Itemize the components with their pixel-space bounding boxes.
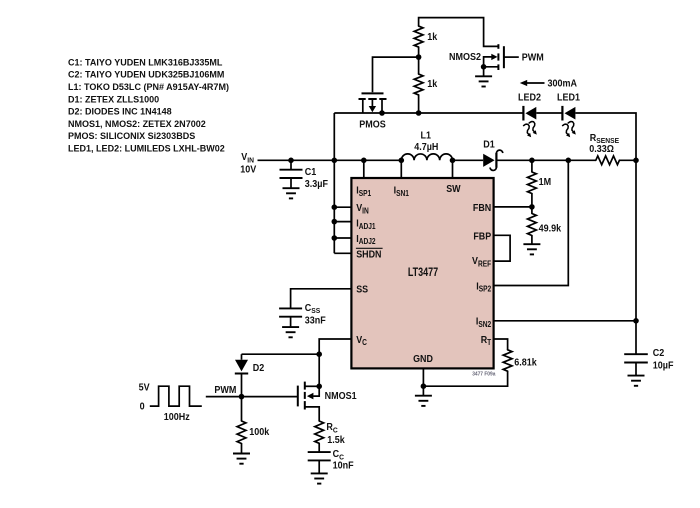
svg-text:LED1: LED1 (557, 92, 581, 104)
svg-text:49.9k: 49.9k (539, 223, 562, 235)
svg-text:0.33Ω: 0.33Ω (589, 144, 614, 156)
svg-text:D2: D2 (253, 362, 265, 374)
svg-text:SHDN: SHDN (356, 249, 381, 261)
svg-text:1.5k: 1.5k (327, 435, 345, 447)
svg-text:LED2: LED2 (518, 92, 541, 104)
svg-text:100Hz: 100Hz (164, 411, 190, 423)
svg-text:D1: ZETEX ZLLS1000: D1: ZETEX ZLLS1000 (68, 94, 159, 104)
svg-text:LT3477: LT3477 (408, 266, 438, 280)
svg-text:4.7µH: 4.7µH (414, 141, 438, 153)
svg-text:PWM: PWM (214, 384, 236, 396)
svg-text:C1: TAIYO YUDEN LMK316BJ335ML: C1: TAIYO YUDEN LMK316BJ335ML (68, 57, 223, 67)
svg-text:GND: GND (413, 353, 433, 365)
svg-text:10V: 10V (240, 164, 257, 176)
svg-text:300mA: 300mA (548, 78, 578, 90)
svg-text:3.3µF: 3.3µF (305, 178, 328, 190)
svg-text:33nF: 33nF (305, 315, 326, 327)
svg-text:100k: 100k (249, 427, 270, 439)
svg-text:1k: 1k (427, 79, 438, 91)
svg-text:C2: C2 (653, 348, 665, 360)
svg-text:3477 F09a: 3477 F09a (472, 371, 495, 377)
svg-text:C1: C1 (305, 167, 317, 179)
svg-text:5V: 5V (139, 382, 151, 394)
svg-text:D2: DIODES INC 1N4148: D2: DIODES INC 1N4148 (68, 106, 172, 116)
svg-text:PMOS: SILICONIX Si2303BDS: PMOS: SILICONIX Si2303BDS (68, 131, 195, 141)
svg-text:10nF: 10nF (333, 460, 354, 472)
svg-text:SW: SW (446, 183, 461, 195)
svg-text:0: 0 (140, 401, 145, 413)
svg-text:SS: SS (356, 284, 368, 296)
svg-text:C2: TAIYO YUDEN UDK325BJ106MM: C2: TAIYO YUDEN UDK325BJ106MM (68, 70, 225, 80)
svg-text:10µF: 10µF (653, 360, 674, 372)
svg-text:PMOS: PMOS (359, 119, 385, 131)
svg-text:1M: 1M (539, 177, 552, 189)
svg-text:NMOS1, NMOS2: ZETEX 2N7002: NMOS1, NMOS2: ZETEX 2N7002 (68, 119, 206, 129)
svg-text:1k: 1k (427, 32, 438, 44)
svg-text:PWM: PWM (522, 52, 544, 64)
svg-text:NMOS2: NMOS2 (449, 52, 481, 64)
svg-text:FBP: FBP (473, 231, 491, 243)
svg-text:L1: TOKO D53LC (PN# A915AY-4R7: L1: TOKO D53LC (PN# A915AY-4R7M) (68, 82, 229, 92)
svg-text:L1: L1 (421, 130, 432, 142)
svg-text:D1: D1 (483, 139, 495, 151)
svg-text:6.81k: 6.81k (514, 357, 537, 369)
svg-text:FBN: FBN (473, 203, 491, 215)
svg-text:NMOS1: NMOS1 (325, 391, 358, 403)
svg-text:LED1, LED2: LUMILEDS LXHL-BW02: LED1, LED2: LUMILEDS LXHL-BW02 (68, 143, 225, 153)
